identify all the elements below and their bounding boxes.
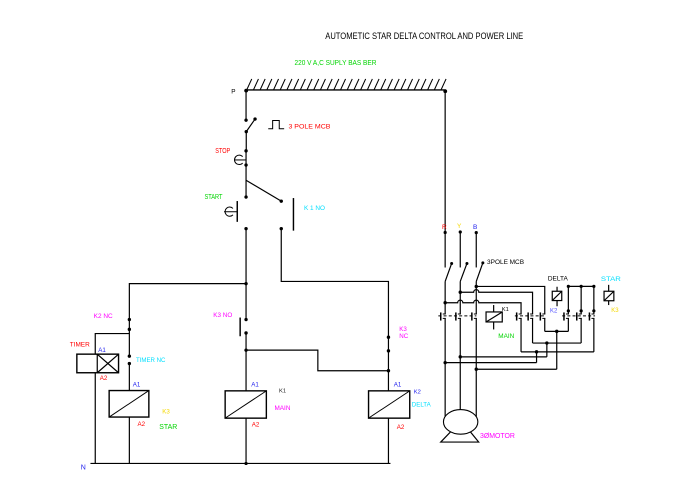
timer coil TIMER xyxy=(77,354,119,373)
svg-text:3 POLE MCB: 3 POLE MCB xyxy=(288,124,330,131)
contact K2 NC xyxy=(128,318,131,321)
node J1 xyxy=(244,282,247,285)
svg-text:STOP: STOP xyxy=(215,148,230,155)
wire seal-in diagonal branch xyxy=(246,180,281,201)
contact TIMER NC xyxy=(128,354,131,357)
wire MAIN coil to N rail xyxy=(245,418,247,463)
supply busbar hatching xyxy=(247,79,446,90)
svg-text:K2: K2 xyxy=(550,308,558,314)
svg-text:K3: K3 xyxy=(611,308,619,314)
star bus xyxy=(568,285,594,287)
svg-text:N: N xyxy=(81,465,86,472)
contact K3 NO xyxy=(244,318,247,321)
wire START to node J1 xyxy=(245,229,247,284)
neutral rail N xyxy=(90,462,390,464)
node B1 xyxy=(475,285,478,288)
delta link H3 (c1 to star c3) xyxy=(521,351,594,353)
svg-text:START: START xyxy=(204,194,223,201)
supply busbar line xyxy=(246,89,446,91)
control MCB switch xyxy=(244,118,247,121)
svg-text:A1: A1 xyxy=(394,382,402,389)
pushbutton STOP (NC) xyxy=(244,149,247,152)
svg-text:K 1 NO: K 1 NO xyxy=(304,205,325,212)
wire R to node R1 xyxy=(444,281,446,302)
K3 star contact group xyxy=(563,312,565,320)
wire DELTA coil to N rail xyxy=(387,418,389,463)
contactor coil K1 power (MAIN) xyxy=(493,305,495,312)
motor base xyxy=(441,429,479,442)
pushbutton START (NO) xyxy=(244,195,247,198)
svg-text:A1: A1 xyxy=(251,382,259,389)
K2 delta contact group xyxy=(516,312,518,320)
node P (busbar left end) xyxy=(244,89,248,93)
svg-text:Y: Y xyxy=(457,223,462,230)
node Y top xyxy=(459,230,462,233)
svg-text:220 V A,C SUPLY BAS BER: 220 V A,C SUPLY BAS BER xyxy=(294,58,376,67)
wire B1 to delta contact 3 xyxy=(476,286,545,331)
wire K1-NO branch to delta branch xyxy=(281,229,388,338)
node R top xyxy=(444,231,447,234)
wire J1 down xyxy=(245,284,247,320)
svg-text:NC: NC xyxy=(399,333,408,340)
contactor coil K2 power (DELTA) xyxy=(556,287,558,292)
delta link H1 (c3 to star c1) xyxy=(545,330,569,332)
node J3 xyxy=(387,369,390,372)
contactor coil K3 power (STAR) xyxy=(608,285,610,291)
power MCB blade Y xyxy=(465,262,468,265)
wire B to node B1 xyxy=(475,281,477,286)
wire to STAR coil xyxy=(128,364,130,391)
node R1 xyxy=(443,301,446,304)
svg-text:K2: K2 xyxy=(414,389,421,395)
svg-text:R: R xyxy=(442,224,447,231)
svg-text:DELTA: DELTA xyxy=(412,402,432,409)
wire Y1 to delta contact 2 (hop over B) xyxy=(460,290,532,343)
svg-text:K2 NC: K2 NC xyxy=(94,313,113,320)
svg-text:A2: A2 xyxy=(397,424,405,431)
svg-text:STAR: STAR xyxy=(601,276,621,283)
node B top xyxy=(475,231,478,234)
wire STOP to START xyxy=(245,165,247,197)
motor M1 (3 phase) xyxy=(443,410,477,435)
power MCB blade R xyxy=(450,262,453,265)
K1 main contact group (on R,Y,B) xyxy=(440,312,442,320)
wire Y to motor xyxy=(459,292,461,410)
svg-text:3POLE MCB: 3POLE MCB xyxy=(487,259,524,266)
wire MCB to STOP xyxy=(245,132,247,151)
svg-text:K3: K3 xyxy=(162,408,170,415)
svg-text:P: P xyxy=(231,89,235,96)
svg-text:A2: A2 xyxy=(137,421,145,428)
wire STAR coil to N rail xyxy=(128,417,130,463)
wire Y to node Y1 xyxy=(459,281,461,292)
svg-text:K3 NO: K3 NO xyxy=(213,312,232,319)
contact K1 NO (seal-in) xyxy=(280,199,283,202)
wire K2NC down xyxy=(128,320,130,357)
node busbar right end xyxy=(443,89,447,93)
contact K3 NC xyxy=(387,336,390,339)
svg-text:A2: A2 xyxy=(252,422,260,429)
svg-text:K1: K1 xyxy=(502,307,509,313)
wire K3NO to MAIN coil xyxy=(245,333,247,391)
wire R1 to delta contact 1 (hops over Y,B) xyxy=(445,300,521,352)
phase R supply line xyxy=(444,90,446,268)
wire branch to timer coil xyxy=(95,334,129,355)
wire J2 jog to delta branch xyxy=(246,350,388,371)
wire B to motor xyxy=(475,286,477,416)
power MCB blade B xyxy=(481,261,484,264)
node Y1 xyxy=(459,291,462,294)
star bus drops to K3 contacts xyxy=(568,286,594,352)
node J2 xyxy=(244,348,247,351)
svg-text:A1: A1 xyxy=(98,347,106,354)
svg-text:A2: A2 xyxy=(100,375,108,382)
svg-text:TIMER NC: TIMER NC xyxy=(136,357,166,364)
phase B supply line xyxy=(475,233,477,268)
contactor coil K2 (DELTA) xyxy=(369,391,410,418)
svg-text:DELTA: DELTA xyxy=(548,275,569,282)
svg-text:MAIN: MAIN xyxy=(498,333,514,340)
contactor coil K1 (MAIN) xyxy=(225,391,266,418)
contactor coil K3 (STAR) xyxy=(109,391,149,418)
wire K3NC to DELTA coil xyxy=(387,337,389,391)
wire timer coil to N rail xyxy=(94,373,96,464)
wire J1 to left (star/timer) branch xyxy=(129,284,246,320)
svg-text:K1: K1 xyxy=(279,389,286,395)
svg-text:A1: A1 xyxy=(133,382,141,389)
delta link H2 (c2 to star c2) xyxy=(533,342,582,344)
phase Y supply line xyxy=(459,232,461,268)
svg-text:TIMER: TIMER xyxy=(70,342,90,349)
MCB pulse icon xyxy=(268,121,284,129)
svg-text:3ØMOTOR: 3ØMOTOR xyxy=(480,433,515,440)
wire R to motor xyxy=(444,303,446,417)
svg-text:B: B xyxy=(473,224,477,231)
wire busbar to control MCB xyxy=(245,90,247,120)
svg-text:MAIN: MAIN xyxy=(274,405,290,412)
svg-text:AUTOMETIC STAR DELTA CONTROL A: AUTOMETIC STAR DELTA CONTROL AND POWER L… xyxy=(325,31,523,41)
svg-text:STAR: STAR xyxy=(159,424,177,431)
